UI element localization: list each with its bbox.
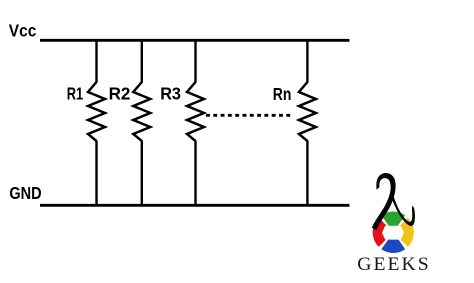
svg-text:Rn: Rn (273, 84, 292, 104)
resistor R2 (133, 82, 150, 141)
wire: GND rail (40, 204, 350, 207)
watermark logo: white center hexagon (383, 227, 402, 238)
svg-text:R2: R2 (109, 84, 131, 104)
dotted continuation line between R3 and Rn (206, 114, 293, 117)
watermark logo: color wheel green segment (381, 212, 405, 233)
wire: branch 2 to GND rail (141, 141, 143, 206)
svg-text:Vcc: Vcc (9, 20, 37, 40)
wire: branch 1 to GND rail (95, 141, 97, 206)
wire: branch 2 from Vcc rail (141, 40, 143, 83)
resistor R3 (187, 82, 204, 141)
wire: branch 3 from Vcc rail (194, 40, 196, 83)
svg-text:GND: GND (9, 183, 41, 203)
wire: Vcc rail (40, 39, 350, 42)
svg-text:R1: R1 (67, 84, 83, 104)
resistor Rn (299, 82, 316, 141)
wire: branch 3 to GND rail (194, 141, 196, 206)
svg-text:GEEKS: GEEKS (357, 254, 431, 275)
watermark logo: lambda right leg with curl (391, 197, 415, 226)
resistor R1 (88, 82, 105, 141)
watermark logo: lambda hook and main descender stroke (372, 173, 396, 230)
wire: branch n to GND rail (306, 141, 308, 206)
watermark logo: color wheel red segment (373, 218, 394, 247)
wire: branch n from Vcc rail (306, 40, 308, 83)
wire: branch 1 from Vcc rail (95, 40, 97, 83)
svg-text:R3: R3 (160, 84, 181, 104)
watermark logo: color wheel yellow segment (393, 218, 414, 247)
watermark logo: color wheel blue segment (381, 232, 405, 253)
